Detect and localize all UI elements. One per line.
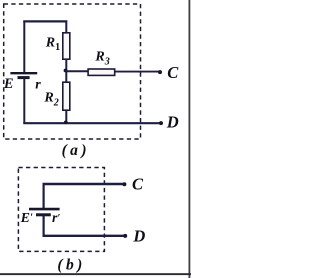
wire: (b) top wire to terminal C — [43, 183, 123, 185]
wire: top wire of loop (a) — [23, 20, 67, 22]
wire: R2 bottom lead — [65, 110, 67, 123]
node: terminal C dot (b) — [122, 182, 126, 186]
svg-text:(b): (b) — [57, 256, 85, 273]
node: terminal D dot (a) — [159, 121, 163, 125]
battery E' long plate — [29, 208, 60, 211]
wire: right branch upper (into R1) — [65, 21, 67, 33]
node: junction R2 with bottom wire — [64, 121, 68, 125]
wire: left branch lower (battery bottom lead) — [23, 78, 25, 124]
box (a) dashed border — [4, 4, 141, 139]
node: junction between R1 and R2 — [64, 69, 68, 73]
resistor R2 — [63, 82, 70, 110]
svg-text:D: D — [132, 227, 145, 246]
svg-text:r: r — [35, 78, 41, 93]
wire: (b) bottom wire to terminal D — [43, 235, 124, 237]
resistor R1 — [63, 33, 70, 59]
wire: bottom wire to terminal D — [23, 122, 159, 124]
node: terminal D dot (b) — [123, 234, 127, 238]
wire: middle wire from node to R3 — [66, 70, 90, 72]
wire: R1 bottom lead — [65, 60, 67, 72]
svg-text:C: C — [132, 174, 144, 193]
battery E short plate — [18, 76, 30, 79]
wire: left branch upper (battery top lead) — [23, 21, 25, 72]
svg-text:D: D — [166, 112, 179, 131]
wire: (b) battery top lead — [42, 183, 44, 208]
battery E' short plate — [36, 213, 51, 216]
node: terminal C dot (a) — [158, 70, 162, 74]
page right border line — [189, 0, 191, 278]
page bottom rule line — [0, 273, 191, 275]
wire: node to R2 top — [65, 71, 67, 82]
svg-text:E: E — [3, 76, 14, 92]
box (b) dashed border — [18, 168, 104, 252]
wire: (b) battery bottom lead — [42, 215, 44, 237]
wire: R3 to terminal C — [115, 71, 159, 73]
svg-text:C: C — [167, 63, 179, 82]
svg-text:r′: r′ — [52, 211, 60, 226]
resistor R3 — [88, 69, 115, 75]
battery E long plate — [10, 72, 37, 74]
svg-text:(a): (a) — [62, 142, 90, 159]
